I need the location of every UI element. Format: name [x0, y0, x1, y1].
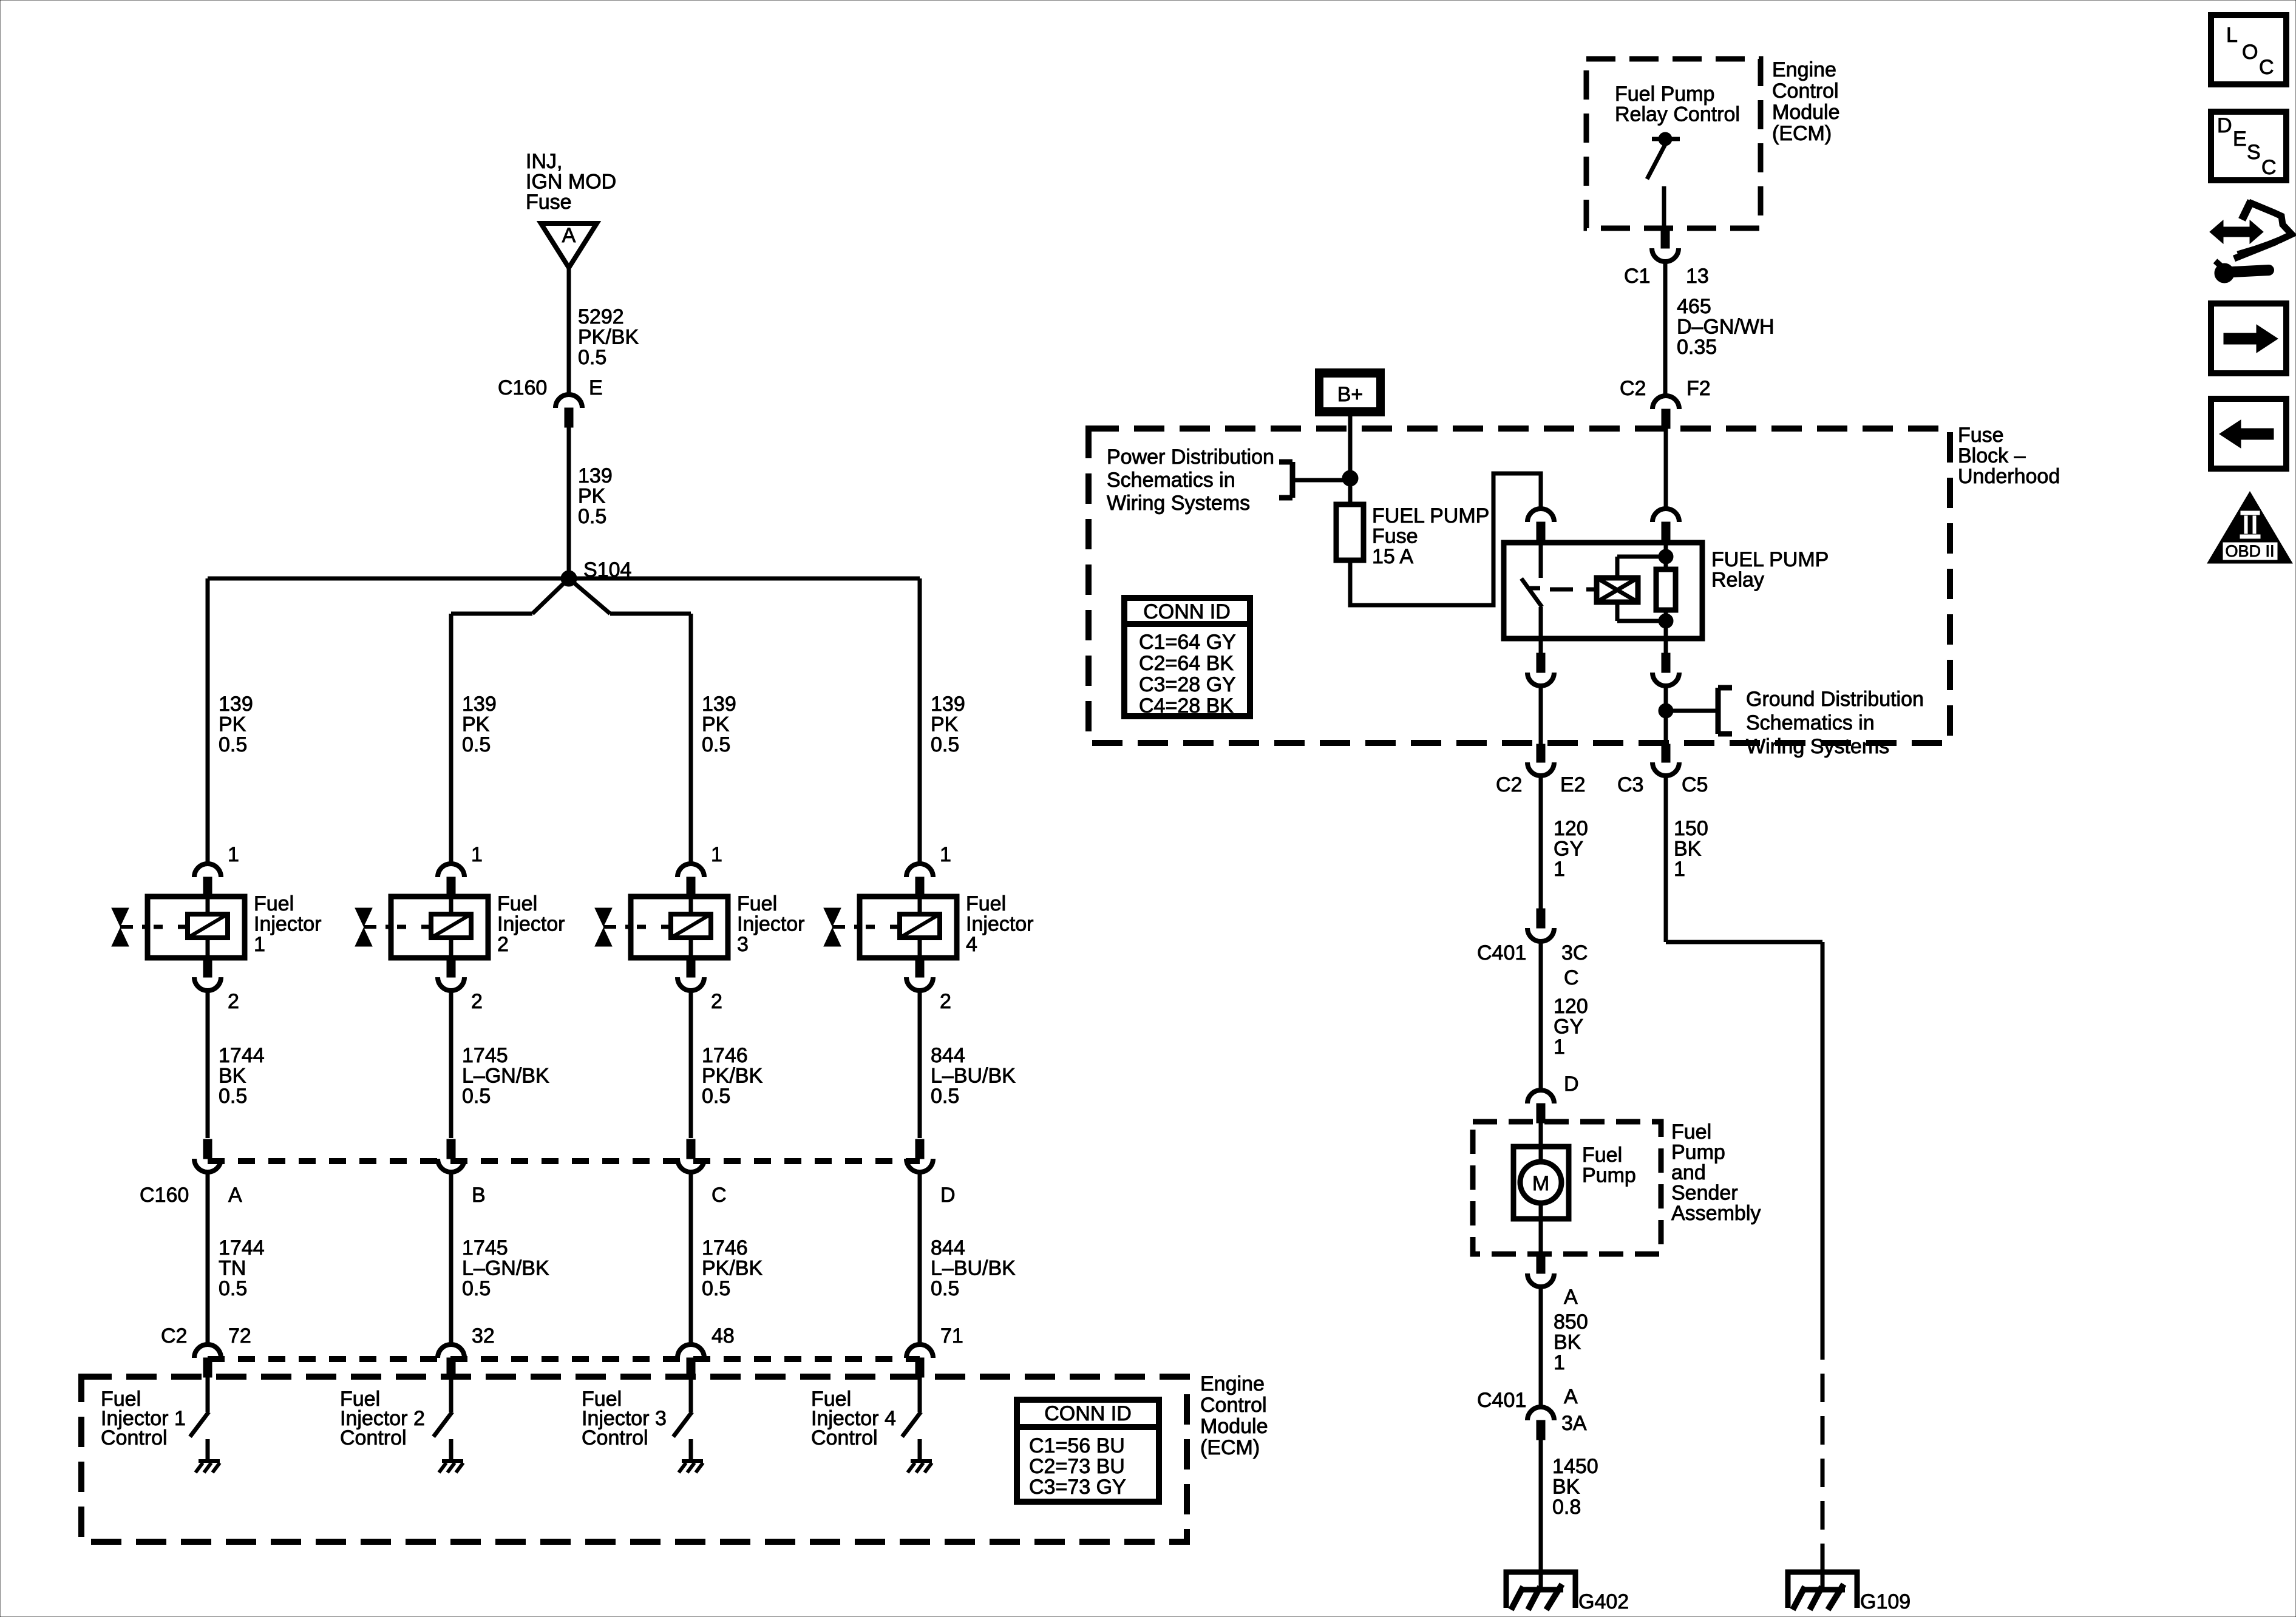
- connector C160 pin A: [194, 1139, 221, 1172]
- label FUEL PUMP Fuse 15 A: [1372, 504, 1489, 568]
- wire label 465 D-GN/WH 0.35: [1677, 295, 1775, 359]
- svg-text:C160: C160: [498, 376, 547, 399]
- label Engine Control Module (ECM) bottom: [1200, 1372, 1268, 1459]
- svg-text:Wiring Systems: Wiring Systems: [1746, 735, 1889, 758]
- svg-text:Fuse: Fuse: [526, 191, 572, 214]
- fuel injector 1 name label: [254, 892, 322, 956]
- connector C160 pin E (arc and terminal): [555, 395, 582, 427]
- svg-text:Schematics in: Schematics in: [1107, 469, 1235, 492]
- fuel pump motor M: [1513, 1123, 1569, 1254]
- svg-text:0.5: 0.5: [219, 1277, 247, 1300]
- svg-text:E: E: [2233, 127, 2247, 151]
- svg-text:O: O: [2242, 41, 2258, 64]
- svg-text:C401: C401: [1477, 1389, 1526, 1412]
- ground G109 label: [1860, 1590, 1911, 1613]
- fuse FUEL PUMP 15 A symbol: [1336, 504, 1364, 560]
- ECM fuel injector 1 driver switch: [190, 1377, 209, 1460]
- wire label 139 PK 0.5 (injector 4 feed): [931, 693, 965, 756]
- connector C160 pin C: [678, 1139, 704, 1172]
- svg-text:C: C: [2259, 56, 2274, 79]
- svg-text:D: D: [940, 1184, 956, 1207]
- wire label 139 PK 0.5 (injector 2 feed): [462, 693, 497, 756]
- svg-text:1: 1: [1554, 1036, 1565, 1059]
- wire 139 PK to fuel injector 3: [689, 614, 693, 863]
- svg-text:3C: 3C: [1561, 941, 1588, 964]
- relay coil (solenoid box): [1597, 578, 1638, 602]
- svg-text:0.35: 0.35: [1677, 336, 1717, 359]
- wire label 5292 PK/BK 0.5: [578, 305, 639, 369]
- svg-text:PK: PK: [219, 713, 246, 736]
- svg-text:C5: C5: [1682, 773, 1708, 796]
- svg-text:Fuel: Fuel: [1671, 1120, 1711, 1144]
- svg-text:Underhood: Underhood: [1958, 465, 2060, 488]
- fuel injector 4 name label: [966, 892, 1034, 956]
- wire 1746 PK/BK from injector 3 to C160-C: [689, 992, 693, 1138]
- wire 150 BK inside fuse block: [1664, 686, 1668, 745]
- connector C160 pin letter B: [472, 1184, 486, 1207]
- connector C160 pin B: [438, 1139, 464, 1172]
- svg-text:844: 844: [931, 1236, 965, 1259]
- connector C2 pin F2 labels: [1620, 377, 1711, 400]
- wire label 844 L–BU/BK 0.5: [931, 1236, 1016, 1300]
- svg-text:C2: C2: [161, 1324, 187, 1347]
- svg-text:1744: 1744: [219, 1236, 265, 1259]
- svg-text:1745: 1745: [462, 1044, 508, 1067]
- svg-text:BK: BK: [1552, 1476, 1580, 1499]
- fuel injector 1 body: [142, 897, 245, 958]
- svg-text:Ground Distribution: Ground Distribution: [1746, 688, 1924, 711]
- relay coil wiring and junction dots: [1617, 543, 1673, 628]
- svg-text:GY: GY: [1554, 838, 1583, 861]
- svg-text:A: A: [562, 224, 576, 247]
- svg-text:(ECM): (ECM): [1200, 1436, 1260, 1459]
- relay FUEL PUMP box: [1504, 543, 1702, 639]
- wire 465 D-GN/WH from ECM C1-13 to fuse block C2-F2: [1663, 262, 1668, 396]
- fuel injector 3 pin 2 label: [711, 990, 722, 1013]
- connector C160 label: [140, 1184, 189, 1207]
- svg-text:PK: PK: [462, 713, 490, 736]
- svg-text:0.5: 0.5: [931, 1085, 959, 1108]
- fuel injector 3 body: [625, 897, 728, 958]
- svg-text:Assembly: Assembly: [1671, 1202, 1761, 1225]
- svg-text:Control: Control: [101, 1426, 168, 1449]
- fuel pump and sender assembly dashed box: [1473, 1122, 1661, 1254]
- svg-text:1: 1: [1554, 858, 1565, 881]
- fuel injector 4 pin 1 connector: [906, 864, 933, 897]
- connector C401 pin A (arc and terminal): [1527, 1407, 1554, 1440]
- svg-text:0.5: 0.5: [931, 733, 959, 756]
- ECM fuel pump relay control driver switch: [1647, 132, 1680, 229]
- wire 1745 L–GN/BK from C160-B to ECM C2-32: [449, 1172, 453, 1344]
- wire 120 GY from fuse block to C401: [1539, 776, 1543, 909]
- ECM connector C2 pin number 71: [940, 1324, 963, 1347]
- icon DESC box: [2211, 112, 2286, 180]
- fuel injector 2 pin 2 label: [471, 990, 483, 1013]
- svg-text:Block –: Block –: [1958, 444, 2026, 467]
- fuel injector 1 pin 2 connector: [194, 958, 221, 991]
- svg-text:C: C: [1564, 966, 1579, 989]
- fuel injector 1 pin 2 label: [228, 990, 239, 1013]
- svg-text:C3=73 GY: C3=73 GY: [1029, 1476, 1126, 1499]
- svg-text:1: 1: [254, 933, 265, 956]
- label Ground Distribution Schematics in Wiring Systems: [1746, 688, 1924, 758]
- wire label 139 PK 0.5 (injector 1 feed): [219, 693, 253, 756]
- svg-text:C1: C1: [1624, 265, 1650, 288]
- ECM internal ground (injector 1 driver): [195, 1461, 220, 1473]
- connector C2 label (ECM): [161, 1324, 187, 1347]
- wire label 1746 PK/BK 0.5: [702, 1044, 763, 1108]
- wire 1745 L–GN/BK from injector 2 to C160-B: [449, 992, 453, 1138]
- ground distribution reference bracket: [1666, 688, 1732, 734]
- svg-text:IGN MOD: IGN MOD: [526, 171, 616, 194]
- svg-text:OBD II: OBD II: [2225, 542, 2274, 560]
- svg-text:120: 120: [1554, 995, 1588, 1018]
- ECM connector C2 pin number 72: [228, 1324, 251, 1347]
- ECM (bottom) dashed box: [81, 1377, 1187, 1542]
- connector labels C2 E2 C3 C5: [1496, 773, 1708, 796]
- label Fuel Pump and Sender Assembly: [1671, 1120, 1761, 1225]
- svg-text:15 A: 15 A: [1372, 545, 1413, 568]
- svg-text:3A: 3A: [1561, 1412, 1587, 1435]
- svg-text:Schematics in: Schematics in: [1746, 711, 1875, 734]
- svg-text:Fuel Pump: Fuel Pump: [1615, 83, 1714, 106]
- relay switch contacts: [1521, 543, 1542, 639]
- svg-text:Pump: Pump: [1671, 1141, 1725, 1164]
- power distribution reference bracket: [1279, 462, 1350, 498]
- svg-text:BK: BK: [219, 1065, 246, 1088]
- svg-text:0.5: 0.5: [462, 1277, 491, 1300]
- svg-text:TN: TN: [219, 1257, 246, 1280]
- svg-text:(ECM): (ECM): [1772, 122, 1832, 145]
- wire 150 BK hidden route (dashed) to G109: [1821, 1331, 1825, 1572]
- label Engine Control Module (ECM) top: [1772, 58, 1840, 145]
- wire 850 BK from fuel pump to C401-A: [1539, 1288, 1543, 1406]
- fuel injector 1 pin 1 connector: [194, 864, 221, 897]
- fuel injector 3 name label: [737, 892, 805, 956]
- svg-text:0.5: 0.5: [578, 505, 606, 528]
- connector C160 pin letter C: [712, 1184, 727, 1207]
- svg-text:Fuel: Fuel: [966, 892, 1006, 915]
- svg-text:Control: Control: [1200, 1394, 1267, 1417]
- wire label 1746 PK/BK 0.5: [702, 1236, 763, 1300]
- fuse block output connector C2-E2: [1527, 744, 1554, 776]
- label Fuel Injector 2 Control: [340, 1388, 425, 1449]
- svg-text:C4=28 BK: C4=28 BK: [1139, 694, 1234, 717]
- wire label 139 PK 0.5: [578, 464, 613, 528]
- svg-text:D–GN/WH: D–GN/WH: [1677, 316, 1775, 339]
- svg-text:0.5: 0.5: [219, 1085, 247, 1108]
- svg-text:A: A: [228, 1184, 242, 1207]
- fuel pump relay switch-side input connector: [1527, 509, 1554, 543]
- icon forward arrow box: [2211, 303, 2286, 373]
- wire label 120 GY 1 (upper): [1554, 817, 1588, 881]
- fuel injector 1 pin 1 label: [228, 843, 239, 866]
- svg-text:L–BU/BK: L–BU/BK: [931, 1257, 1016, 1280]
- svg-text:B: B: [472, 1184, 486, 1207]
- svg-text:Fuel: Fuel: [497, 892, 537, 915]
- wire 139 PK to fuel injector 1: [206, 578, 210, 863]
- svg-text:0.5: 0.5: [702, 1277, 730, 1300]
- svg-text:1: 1: [1674, 858, 1685, 881]
- icon back arrow box: [2211, 399, 2286, 469]
- svg-text:48: 48: [712, 1324, 735, 1347]
- fuel pump connector pin D label: [1564, 1073, 1579, 1096]
- svg-text:Fuse: Fuse: [1372, 525, 1418, 548]
- fuel injector 4 body: [854, 897, 957, 958]
- fuse block CONN ID table: [1124, 598, 1250, 716]
- wire 5292 PK/BK from fuse A to C160-E: [567, 268, 571, 395]
- fuel pump connector pin D (arc and terminal): [1527, 1090, 1554, 1123]
- svg-text:G109: G109: [1860, 1590, 1911, 1613]
- wire 1450 BK from C401 to G402: [1539, 1440, 1543, 1590]
- wire branch diagonals from S104: [451, 578, 691, 614]
- ground G109: [1788, 1572, 1857, 1610]
- splice S104 label: [583, 558, 631, 581]
- fuel injector 3 pin 2 connector: [678, 958, 704, 991]
- svg-text:2: 2: [497, 933, 509, 956]
- fuse block CONN ID entries: [1139, 631, 1236, 717]
- svg-text:A: A: [1564, 1286, 1578, 1309]
- label Fuse Block - Underhood: [1958, 424, 2060, 488]
- svg-text:C: C: [2261, 156, 2277, 179]
- svg-text:GY: GY: [1554, 1015, 1583, 1039]
- wire 139 PK from C160-E to splice S104: [567, 427, 571, 578]
- ground G402 label: [1578, 1590, 1629, 1613]
- connector C160 pin letter A: [228, 1184, 242, 1207]
- wire label 1450 BK 0.8: [1552, 1455, 1598, 1519]
- svg-text:0.5: 0.5: [702, 733, 730, 756]
- connector C2 pin F2 (arc and terminal): [1652, 396, 1679, 429]
- fuel injector 2 body: [385, 897, 488, 958]
- ECM connector C2 pin number 48: [712, 1324, 735, 1347]
- connector C160 pin E labels: [498, 376, 603, 399]
- svg-text:1744: 1744: [219, 1044, 265, 1067]
- svg-text:Control: Control: [582, 1426, 648, 1449]
- svg-text:5292: 5292: [578, 305, 624, 328]
- wire from C2-F2 to relay coil-side input connector: [1664, 429, 1668, 510]
- svg-text:C2=64 BK: C2=64 BK: [1139, 652, 1234, 675]
- svg-text:Control: Control: [340, 1426, 407, 1449]
- wire label 120 GY 1 (lower): [1554, 995, 1588, 1059]
- relay output connector (coil ground side): [1652, 639, 1679, 686]
- wire 120 GY inside fuse block: [1539, 686, 1543, 745]
- wire 139 PK to fuel injector 2: [449, 614, 453, 863]
- fuse block underhood dashed box: [1089, 429, 1950, 743]
- svg-text:150: 150: [1674, 817, 1708, 840]
- wire from B+ into fuse block: [1348, 416, 1353, 504]
- svg-text:139: 139: [702, 693, 736, 716]
- svg-text:S: S: [2247, 141, 2261, 164]
- icon OBD II triangle: [2207, 492, 2292, 563]
- fuse block output connector C3-C5: [1652, 744, 1679, 776]
- wire label 150 BK 1: [1674, 817, 1708, 881]
- wire 120 GY from C401 to fuel pump: [1539, 941, 1543, 1090]
- svg-text:139: 139: [219, 693, 253, 716]
- svg-text:BK: BK: [1554, 1331, 1581, 1354]
- wire 1744 BK from injector 1 to C160-A: [206, 992, 210, 1138]
- svg-text:Engine: Engine: [1772, 58, 1836, 81]
- icon diagnostic double arrow with wrench: [2210, 201, 2292, 283]
- connector C401 pin 3C labels: [1477, 941, 1588, 989]
- fuel injector 2 pin 1 label: [471, 843, 483, 866]
- wire label 1744 BK 0.5: [219, 1044, 265, 1108]
- svg-text:L–GN/BK: L–GN/BK: [462, 1257, 549, 1280]
- relay suppression resistor: [1656, 569, 1676, 639]
- label Power Distribution Schematics in Wiring Systems: [1107, 446, 1274, 515]
- svg-text:B+: B+: [1337, 383, 1364, 406]
- svg-text:0.5: 0.5: [462, 733, 491, 756]
- ECM connector C2 pin number 32: [472, 1324, 495, 1347]
- fuel injector 2 valve symbol: [355, 908, 376, 946]
- svg-text:PK/BK: PK/BK: [702, 1065, 763, 1088]
- svg-text:Module: Module: [1200, 1415, 1268, 1438]
- svg-text:PK/BK: PK/BK: [578, 326, 639, 349]
- connector C1 pin 13 labels: [1624, 265, 1709, 288]
- wire label 1744 TN 0.5: [219, 1236, 265, 1300]
- svg-text:C2=73 BU: C2=73 BU: [1029, 1455, 1125, 1478]
- fuel injector 1 valve symbol: [112, 908, 133, 946]
- ECM (top) dashed box: [1586, 59, 1761, 228]
- svg-text:C2: C2: [1496, 773, 1522, 796]
- svg-text:D: D: [1564, 1073, 1579, 1096]
- svg-text:1: 1: [471, 843, 483, 866]
- svg-text:120: 120: [1554, 817, 1588, 840]
- svg-text:C2: C2: [1620, 377, 1646, 400]
- svg-text:and: and: [1671, 1161, 1706, 1184]
- svg-text:C160: C160: [140, 1184, 189, 1207]
- svg-text:139: 139: [462, 693, 497, 716]
- svg-text:1: 1: [940, 843, 951, 866]
- ECM C2 dashed connector line: [208, 1356, 920, 1362]
- connector C160 pin letter D: [940, 1184, 956, 1207]
- svg-text:Injector: Injector: [254, 913, 322, 936]
- svg-text:L–BU/BK: L–BU/BK: [931, 1065, 1016, 1088]
- label Fuel Pump: [1582, 1144, 1636, 1187]
- wire label 1745 L–GN/BK 0.5: [462, 1236, 549, 1300]
- wire 139 PK bus from S104 (horizontal): [208, 577, 920, 581]
- svg-text:0.5: 0.5: [702, 1085, 730, 1108]
- svg-text:G402: G402: [1578, 1590, 1629, 1613]
- wire from fuel pump fuse to relay switch (up and over): [1350, 473, 1541, 605]
- ECM internal ground (injector 2 driver): [439, 1461, 463, 1473]
- svg-text:D: D: [2217, 114, 2232, 137]
- fuel injector 3 pin 1 connector: [678, 864, 704, 897]
- svg-text:4: 4: [966, 933, 977, 956]
- fuse A label: INJ, IGN MOD Fuse: [526, 150, 616, 214]
- svg-text:E2: E2: [1560, 773, 1586, 796]
- wire 844 L–BU/BK from injector 4 to C160-D: [918, 992, 922, 1138]
- svg-text:Relay Control: Relay Control: [1615, 103, 1740, 126]
- svg-text:13: 13: [1686, 265, 1709, 288]
- svg-text:C1=64 GY: C1=64 GY: [1139, 631, 1236, 654]
- fuel injector 4 valve symbol: [824, 908, 845, 946]
- svg-text:1450: 1450: [1552, 1455, 1598, 1478]
- icon LOC box: [2211, 15, 2286, 84]
- wire 844 L–BU/BK from C160-D to ECM C2-71: [918, 1172, 922, 1344]
- svg-text:1746: 1746: [702, 1236, 748, 1259]
- fuel pump relay coil-side input connector: [1652, 509, 1679, 543]
- svg-text:M: M: [1532, 1172, 1549, 1195]
- svg-text:0.5: 0.5: [578, 346, 606, 369]
- ECM connector C2 pin 72 (arc and terminal): [194, 1344, 221, 1377]
- svg-text:0.5: 0.5: [462, 1085, 491, 1108]
- svg-text:F2: F2: [1686, 377, 1711, 400]
- connector C160 pin D: [906, 1139, 933, 1172]
- svg-text:INJ,: INJ,: [526, 150, 562, 173]
- svg-text:1746: 1746: [702, 1044, 748, 1067]
- svg-text:Module: Module: [1772, 101, 1840, 124]
- svg-text:32: 32: [472, 1324, 495, 1347]
- svg-text:PK: PK: [578, 485, 606, 508]
- svg-text:FUEL PUMP: FUEL PUMP: [1372, 504, 1489, 527]
- svg-text:3: 3: [737, 933, 749, 956]
- svg-text:C: C: [712, 1184, 727, 1207]
- battery feed symbol B+: [1315, 368, 1385, 416]
- svg-text:1: 1: [1554, 1351, 1565, 1374]
- ECM CONN ID entries: [1029, 1434, 1126, 1499]
- ECM connector C2 pin 71 (arc and terminal): [906, 1344, 933, 1377]
- connector C160 dashed connector line: [208, 1158, 920, 1164]
- svg-text:Pump: Pump: [1582, 1164, 1636, 1187]
- wire 1744 TN from C160-A to ECM C2-72: [206, 1172, 210, 1344]
- svg-text:C3: C3: [1617, 773, 1643, 796]
- ECM connector C2 pin 48 (arc and terminal): [678, 1344, 704, 1377]
- junction dot to ground distribution reference: [1659, 703, 1673, 718]
- svg-text:2: 2: [471, 990, 483, 1013]
- svg-text:1: 1: [711, 843, 722, 866]
- svg-text:1745: 1745: [462, 1236, 508, 1259]
- svg-text:2: 2: [940, 990, 951, 1013]
- relay actuating dashed link: [1550, 588, 1596, 592]
- connector C1 pin 13 (arc and terminal): [1652, 229, 1679, 262]
- splice S104 junction dot: [561, 571, 577, 586]
- wire label 844 L–BU/BK 0.5: [931, 1044, 1016, 1108]
- svg-text:Injector: Injector: [497, 913, 565, 936]
- svg-text:139: 139: [578, 464, 613, 487]
- label FUEL PUMP Relay: [1711, 548, 1829, 592]
- label Fuel Injector 1 Control: [101, 1388, 186, 1449]
- label Fuel Injector 3 Control: [582, 1388, 667, 1449]
- fuel injector 2 pin 1 connector: [438, 864, 464, 897]
- svg-text:Injector: Injector: [737, 913, 805, 936]
- svg-text:A: A: [1564, 1385, 1578, 1408]
- svg-text:C3=28 GY: C3=28 GY: [1139, 673, 1236, 696]
- svg-text:71: 71: [940, 1324, 963, 1347]
- fuel injector 2 name label: [497, 892, 565, 956]
- svg-text:0.5: 0.5: [219, 733, 247, 756]
- svg-text:C401: C401: [1477, 941, 1526, 964]
- ECM connector C2 pin 32 (arc and terminal): [438, 1344, 464, 1377]
- wire 1746 PK/BK from C160-C to ECM C2-48: [689, 1172, 693, 1344]
- connector C401 pin 3C (arc and terminal): [1527, 909, 1554, 941]
- wire 139 PK to fuel injector 4: [918, 578, 922, 863]
- connector C401 pin A labels: [1477, 1385, 1587, 1435]
- svg-text:139: 139: [931, 693, 965, 716]
- svg-text:844: 844: [931, 1044, 965, 1067]
- fuel pump output pin A label: [1564, 1286, 1578, 1309]
- svg-text:0.8: 0.8: [1552, 1496, 1581, 1519]
- ECM fuel injector 4 driver switch: [902, 1377, 921, 1460]
- svg-text:PK/BK: PK/BK: [702, 1257, 763, 1280]
- label Fuel Injector 4 Control: [811, 1388, 896, 1449]
- label Fuel Pump Relay Control: [1615, 83, 1740, 126]
- svg-text:C1=56 BU: C1=56 BU: [1029, 1434, 1125, 1457]
- wire label 850 BK 1: [1554, 1310, 1588, 1374]
- fuel injector 4 pin 2 label: [940, 990, 951, 1013]
- ECM CONN ID table: [1017, 1400, 1159, 1502]
- ECM fuel injector 2 driver switch: [433, 1377, 452, 1460]
- svg-text:Fuel: Fuel: [1582, 1144, 1622, 1167]
